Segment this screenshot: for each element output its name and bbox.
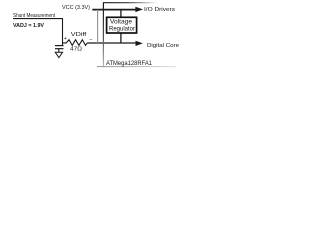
capacitor C1 top plate (55, 45, 64, 47)
svg-text:VDiff: VDiff (71, 32, 87, 38)
svg-text:VCC (3.3V): VCC (3.3V) (62, 5, 90, 11)
chip outline bottom edge (light) (97, 66, 176, 68)
wire resistor output to digital core (87, 42, 136, 44)
arrow to I/O drivers (135, 7, 143, 12)
wire VADJ top rail (13, 18, 63, 20)
svg-text:Voltage: Voltage (110, 19, 133, 25)
svg-text:+: + (64, 36, 67, 42)
svg-text:Regulator: Regulator (109, 26, 135, 32)
wire capacitor to ground stub (58, 49, 60, 53)
svg-text:VADJ = 1.9V: VADJ = 1.9V (13, 23, 44, 29)
ground (55, 52, 62, 57)
wire VCC rail to regulator input (120, 10, 122, 18)
svg-text:Digital Core: Digital Core (147, 43, 179, 49)
capacitor C1 bottom plate (55, 48, 64, 50)
svg-text:47Ω: 47Ω (70, 47, 82, 53)
wire left vertical (VADJ rail down to shunt node) (62, 19, 64, 46)
voltage regulator U1 box (107, 17, 137, 33)
svg-text:ATMega128RFA1: ATMega128RFA1 (106, 61, 153, 67)
wire grey bypass vertical (97, 10, 99, 43)
chip outline left edge (fading) (102, 3, 104, 67)
arrow to digital core (136, 41, 143, 46)
wire regulator output down (120, 33, 122, 43)
wire VCC rail (92, 9, 136, 11)
svg-text:I/O Drivers: I/O Drivers (144, 7, 175, 13)
resistor R1 zigzag (63, 40, 88, 46)
chip outline top edge (fading) (103, 2, 158, 4)
